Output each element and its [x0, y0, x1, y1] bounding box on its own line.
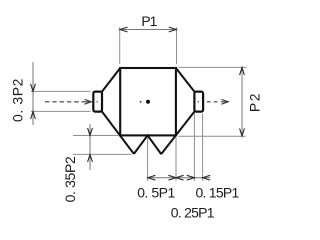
center mark dot	[146, 100, 150, 104]
0.35P2 top extension	[73, 135, 119, 137]
bottom dimension chain line	[148, 177, 211, 179]
P2 arrowheads	[240, 68, 245, 137]
dimension P1 line	[120, 29, 177, 31]
svg-text:P2: P2	[246, 92, 262, 112]
bottom W notch	[134, 135, 161, 154]
bottom-right chamfer wire	[161, 112, 194, 155]
P1 right extension	[176, 27, 178, 64]
arrow at pad left extension	[187, 175, 195, 180]
left pad	[93, 92, 102, 112]
top-left chamfer wire	[102, 68, 120, 92]
arrow at notch peak extension	[148, 175, 156, 180]
0.3P2 arrowheads	[31, 84, 36, 119]
arrow at pad right extension (outside)	[203, 175, 211, 180]
extension from right pad left edge	[193, 114, 195, 182]
centerline dot in left pad	[97, 101, 98, 102]
P2 top extension	[179, 66, 247, 68]
svg-text:0. 25P1: 0. 25P1	[171, 205, 215, 221]
top-right chamfer wire	[176, 68, 195, 92]
svg-text:0. 3P2: 0. 3P2	[9, 78, 25, 122]
dashed centerline arrow right	[207, 99, 228, 104]
P1 left extension	[119, 27, 121, 64]
0.3P2 top extension	[31, 90, 91, 92]
P2 bottom extension	[179, 135, 246, 137]
bottom chain arrowheads	[148, 175, 210, 180]
0.35P2 arrowheads	[88, 128, 93, 162]
arrows at body corner extension	[168, 175, 176, 180]
svg-text:0. 15P1: 0. 15P1	[195, 185, 239, 201]
svg-text:0. 35P2: 0. 35P2	[62, 156, 78, 202]
P1 arrowheads	[120, 27, 176, 32]
package body outline (square)	[120, 68, 176, 135]
right pad	[194, 92, 203, 112]
extension from right pad right edge	[202, 114, 204, 182]
centerline dot in right pad	[198, 101, 199, 102]
dimension P2 line	[241, 68, 243, 137]
extension from body right corner	[175, 138, 177, 182]
0.3P2 bottom extension	[31, 110, 91, 112]
svg-text:0. 5P1: 0. 5P1	[137, 185, 175, 201]
0.35P2 bottom extension	[73, 153, 132, 155]
extension lines (gray)	[31, 27, 247, 181]
extension from notch peak	[147, 137, 149, 181]
svg-text:P1: P1	[141, 13, 157, 29]
dimension 0.3P2 lines	[32, 62, 34, 125]
dimension 0.35P2 line	[89, 124, 91, 170]
bottom-left chamfer wire	[102, 112, 134, 154]
centerline dot left of center	[140, 101, 142, 103]
dashed centerline arrow left	[45, 99, 91, 104]
